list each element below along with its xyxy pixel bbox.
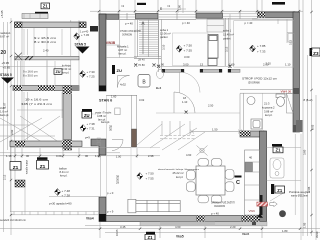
svg-text:Z1: Z1 — [40, 164, 46, 170]
svg-text:=2: =2 — [121, 4, 125, 8]
dining chairs — [187, 159, 235, 203]
wall bedroom1 west partition — [159, 19, 162, 72]
text dims under bed1 — [161, 62, 204, 66]
svg-text:3.13: 3.13 — [225, 46, 229, 52]
svg-text:2.40: 2.40 — [43, 49, 49, 53]
svg-text:Z1: Z1 — [148, 235, 154, 240]
svg-text:+ 7.38: + 7.38 — [87, 122, 96, 126]
marker X ticks y66 — [157, 65, 232, 68]
text +7.38 hall — [87, 122, 96, 131]
svg-text:30: 30 — [109, 128, 112, 132]
window top wall gap 2 — [158, 15, 196, 20]
svg-text:3.13: 3.13 — [289, 39, 293, 45]
svg-text:16.05: 16.05 — [115, 229, 119, 236]
wire island edge — [130, 148, 132, 200]
svg-text:+ 7.55: + 7.55 — [146, 177, 155, 181]
svg-text:40: 40 — [249, 156, 253, 160]
svg-text:+ 7.38: + 7.38 — [62, 194, 71, 198]
svg-text:p = 40: p = 40 — [245, 21, 253, 25]
text stair spec lower — [21, 98, 53, 107]
text stair spec upper — [34, 36, 57, 44]
svg-text:p + 0: p + 0 — [107, 191, 114, 195]
niche box left of west wall — [90, 26, 98, 32]
wire bedroom1 inner outline — [173, 33, 209, 66]
text stair spec mid — [23, 70, 38, 78]
svg-text:OPRANI I PUŠ ZAŠTITI: OPRANI I PUŠ ZAŠTITI — [211, 202, 235, 205]
svg-text:29: 29 — [116, 181, 119, 185]
wall balcony band y141 — [10, 141, 82, 147]
text zid left — [0, 106, 9, 117]
svg-text:8 x 30.0 cm: 8 x 30.0 cm — [34, 40, 57, 44]
wall bathroom south band — [240, 131, 264, 137]
svg-text:soba 1: soba 1 — [160, 28, 169, 32]
svg-text:3.92: 3.92 — [10, 129, 14, 135]
wall bedroom divider x226 — [226, 18, 229, 66]
svg-text:OGRADOM: OGRADOM — [214, 205, 225, 208]
svg-text:1.00: 1.00 — [116, 155, 122, 159]
text dim bottom row — [120, 225, 288, 233]
wire dimension lines left margin — [4, 18, 12, 235]
svg-text:VW4 30: VW4 30 — [281, 90, 292, 94]
svg-text:Vko4: Vko4 — [86, 217, 94, 221]
svg-text:3.60: 3.60 — [303, 149, 307, 155]
marker level kitchen — [80, 71, 86, 78]
svg-text:ZU: ZU — [84, 113, 90, 118]
switch boxes hall — [97, 138, 101, 146]
svg-text:3.00: 3.00 — [184, 55, 190, 59]
svg-text:8 x 30.0 cm: 8 x 30.0 cm — [23, 74, 38, 78]
furniture bed bedroom1 — [208, 35, 218, 66]
svg-text:Z3: Z3 — [313, 51, 319, 56]
text mihaela — [117, 45, 129, 56]
wall top main segment 3 — [196, 13, 223, 18]
wall terrace band y86 — [13, 86, 79, 91]
svg-text:p + 40: p + 40 — [211, 212, 219, 216]
svg-text:20: 20 — [1, 50, 7, 56]
text stair dims — [138, 57, 145, 67]
svg-text:1.95: 1.95 — [303, 222, 307, 228]
dining table — [196, 166, 225, 195]
marker level bedroom2 — [250, 45, 256, 52]
wire dimension chain y156 — [0, 148, 160, 158]
marker level living room — [137, 173, 143, 180]
terrace wc right — [270, 158, 284, 178]
marker triangle bottom right — [257, 214, 264, 218]
svg-text:2.98: 2.98 — [148, 154, 154, 158]
svg-text:visina ograde: visina ograde — [25, 160, 28, 175]
wire dimension line y131 with ticks — [190, 130, 242, 134]
svg-text:OGRADOM: OGRADOM — [122, 34, 132, 37]
wall lower terrace band — [140, 222, 267, 226]
wall L-corner at balcony door — [91, 139, 106, 155]
wire stair treads middle flight — [18, 61, 56, 85]
window tick gap2 — [176, 13, 178, 20]
svg-text:ker.pl.: ker.pl. — [176, 175, 183, 179]
svg-text:1.80: 1.80 — [282, 229, 288, 233]
text otvor u pod — [120, 30, 141, 37]
marker level balcony — [55, 189, 61, 196]
wire roof diagonals center — [137, 121, 205, 150]
text door dims — [182, 96, 188, 104]
wall bottom main — [106, 216, 260, 222]
wall west interior x99 — [99, 14, 106, 91]
sofa — [128, 199, 180, 213]
text balkon — [59, 167, 69, 178]
text vrata note — [95, 111, 112, 122]
svg-text:345 (7 x 29.3 cm: 345 (7 x 29.3 cm — [21, 102, 53, 106]
wall terrace band y57 — [15, 53, 80, 61]
wall hall partition x132 brown hatch — [132, 95, 137, 147]
svg-text:+ 7.30: + 7.30 — [87, 70, 96, 74]
marker STAN5 flag triangle — [76, 47, 90, 54]
svg-text:4.60: 4.60 — [175, 225, 181, 229]
svg-text:2.20: 2.20 — [230, 225, 236, 229]
furniture planter terrace top — [22, 13, 48, 19]
svg-text:ker.pl.: ker.pl. — [265, 113, 273, 117]
wall bedrooms south jambs — [162, 69, 231, 73]
wall top main segment 1 — [99, 14, 119, 20]
svg-text:15.40 m²: 15.40 m² — [223, 33, 234, 37]
marker level stairs top — [74, 33, 80, 40]
wall bathroom north lines — [240, 90, 293, 94]
wall east living x260 — [260, 131, 267, 222]
text kuhinja — [62, 64, 71, 75]
wire hall line y113 — [156, 112, 240, 114]
svg-text:STAN 6: STAN 6 — [99, 99, 112, 103]
svg-text:+ 7.50: + 7.50 — [146, 172, 155, 176]
svg-text:2.12: 2.12 — [3, 174, 7, 180]
svg-text:soba 1: soba 1 — [223, 29, 232, 33]
marker black bar top right — [272, 2, 285, 5]
text kupaona — [262, 102, 275, 118]
svg-text:parket: parket — [160, 35, 168, 39]
marker C dining — [235, 176, 242, 187]
svg-text:ZU: ZU — [55, 70, 60, 74]
svg-text:kuhinja: kuhinja — [62, 64, 71, 68]
svg-text:12.06 m²: 12.06 m² — [160, 32, 171, 36]
svg-text:IZVORNIK: IZVORNIK — [248, 82, 260, 85]
svg-text:3.20: 3.20 — [266, 62, 272, 66]
text levels balcony — [62, 189, 71, 198]
marker black bar top center — [137, 3, 146, 5]
svg-text:Mihaela 1: Mihaela 1 — [117, 45, 129, 49]
svg-text:šam.pl.: šam.pl. — [0, 113, 9, 117]
svg-text:+ 7.25: + 7.25 — [87, 75, 96, 79]
marker level hall lower — [80, 125, 86, 132]
svg-text:samo Ø315mm: samo Ø315mm — [291, 196, 308, 198]
svg-text:Z1: Z1 — [276, 148, 282, 153]
svg-text:3.00: 3.00 — [56, 154, 62, 158]
boiler box B — [138, 75, 150, 88]
svg-text:lam.pl.: lam.pl. — [119, 52, 127, 56]
svg-text:+ 7.45: + 7.45 — [81, 33, 90, 37]
furniture closet bedroom1 — [207, 19, 224, 32]
wall mihaela room lines — [106, 20, 137, 58]
marker red hatch drain — [257, 202, 277, 207]
svg-text:3.10: 3.10 — [162, 44, 166, 50]
svg-text:4.60: 4.60 — [186, 153, 192, 157]
wire stair treads upper flight — [0, 20, 79, 88]
svg-text:1.10: 1.10 — [285, 62, 291, 66]
svg-text:70 80: 70 80 — [138, 63, 145, 67]
svg-text:4.87 m²: 4.87 m² — [118, 48, 127, 52]
wire balcony railing posts — [14, 212, 94, 215]
window tick gap1 — [126, 13, 128, 20]
window top wall gap 3 — [223, 14, 258, 19]
svg-text:25.22 m²: 25.22 m² — [173, 171, 184, 175]
marker big triangle left edge — [1, 78, 14, 84]
svg-text:8 (8+2): 8 (8+2) — [304, 98, 313, 102]
wall hall top y95 — [106, 94, 137, 96]
svg-text:STAN 5: STAN 5 — [0, 73, 12, 77]
svg-text:3.02: 3.02 — [139, 98, 145, 102]
label box ZU kitchen — [54, 69, 62, 75]
svg-text:ZU: ZU — [117, 68, 122, 73]
svg-text:1.00: 1.00 — [229, 62, 235, 66]
svg-text:kupaona 2: kupaona 2 — [262, 106, 275, 110]
text ponikva — [289, 192, 311, 198]
svg-text:19 x 16.6 cm: 19 x 16.6 cm — [25, 98, 49, 102]
svg-text:1.80: 1.80 — [178, 4, 182, 10]
svg-text:+5.95: +5.95 — [0, 10, 4, 18]
text soba1 label — [160, 28, 171, 39]
svg-text:28 40: 28 40 — [138, 57, 145, 61]
text oprani note — [211, 202, 235, 209]
kitchen counter — [245, 150, 260, 215]
wall vertical parapet x63 — [63, 86, 72, 150]
text levels bedroom1 — [184, 44, 193, 53]
bathroom vanity — [251, 119, 262, 129]
marker level bedroom1 — [176, 45, 182, 52]
stairs main interior flight — [139, 21, 158, 55]
wire bedroom inner face line — [106, 19, 293, 21]
svg-text:p + 9: p + 9 — [107, 210, 114, 214]
label box ZU west — [82, 109, 92, 118]
kitchen washer — [245, 163, 253, 172]
wall bedrooms south y70 — [162, 69, 240, 72]
door arc balcony — [112, 140, 123, 151]
svg-text:B+6: B+6 — [156, 86, 162, 90]
svg-text:13: 13 — [200, 62, 204, 66]
text nadstres — [0, 31, 11, 39]
svg-text:18: 18 — [183, 96, 186, 100]
svg-text:C: C — [236, 180, 240, 186]
svg-text:1.07: 1.07 — [3, 102, 7, 108]
door arc hall-stairs — [118, 76, 130, 88]
wire stair zone lower flight — [17, 92, 63, 140]
label box Z1 bottom-center — [145, 232, 155, 240]
wire dimension lines right margin — [303, 0, 316, 240]
wire balcony outline — [10, 147, 99, 215]
svg-text:Vko5: Vko5 — [176, 235, 184, 239]
text +7.30 kitchen — [87, 70, 96, 79]
svg-text:3.00: 3.00 — [183, 62, 189, 66]
svg-text:balkon: balkon — [59, 167, 67, 171]
text 2830 stack — [109, 125, 112, 132]
wire dimension lines bottom margin — [0, 222, 320, 238]
door arc hall-living — [174, 92, 195, 113]
marker X tick door — [185, 111, 188, 114]
svg-text:nadstreš: nadstreš — [0, 31, 11, 35]
marker drain circle terrace — [279, 210, 286, 217]
wall top main segment 2 — [136, 14, 159, 20]
text strop i pod — [242, 78, 277, 85]
text dim chain y156 — [6, 154, 154, 158]
hall wc small — [115, 108, 120, 115]
svg-text:2.85: 2.85 — [307, 186, 311, 192]
label box ZU hall — [112, 65, 122, 74]
svg-text:+ 7.33: + 7.33 — [257, 50, 266, 54]
wall southwest corner — [99, 197, 106, 222]
svg-text:1.18: 1.18 — [6, 154, 12, 158]
svg-text:90: 90 — [161, 62, 165, 66]
svg-text:30: 30 — [26, 154, 30, 158]
svg-text:4.88 m²: 4.88 m² — [97, 114, 106, 118]
svg-text:3.30 m²: 3.30 m² — [62, 67, 71, 71]
bathroom shower — [287, 94, 294, 114]
wire balcony top extend — [99, 147, 131, 149]
wire bedroom2 inner outline — [234, 21, 294, 67]
svg-text:8.67 m²: 8.67 m² — [0, 35, 9, 39]
text right margin rotated dims — [303, 124, 315, 228]
text dims under bed2 — [229, 62, 291, 66]
svg-text:sendvič zid 10x10 cm: sendvič zid 10x10 cm — [0, 219, 26, 222]
svg-text:parket: parket — [223, 37, 231, 41]
text left margin rotated dims — [3, 102, 14, 180]
svg-text:+ 7.55: + 7.55 — [184, 49, 193, 53]
wall balcony end block x15 y180 — [15, 180, 25, 187]
svg-text:1.10: 1.10 — [182, 100, 188, 104]
marker checker block bottom right — [241, 218, 260, 224]
wall east exterior x293 — [293, 12, 300, 132]
svg-text:3.45: 3.45 — [120, 225, 126, 229]
svg-text:+5.95: +5.95 — [2, 61, 10, 65]
svg-text:1.50: 1.50 — [212, 128, 218, 132]
svg-text:p = 40: p = 40 — [182, 21, 190, 25]
svg-text:+5.85: +5.85 — [3, 66, 11, 70]
wire roof X-brace lower-left — [0, 116, 60, 143]
svg-text:lam.pl.: lam.pl. — [98, 118, 106, 122]
bathroom wc — [276, 94, 285, 106]
label box Z1 bottom-right — [271, 184, 285, 194]
svg-text:39/19: 39/19 — [315, 231, 319, 238]
text dnevni — [158, 168, 200, 179]
label box Z1 top-left — [41, 3, 50, 9]
svg-text:+ 7.85: + 7.85 — [257, 44, 266, 48]
svg-text:p=9: p=9 — [85, 136, 90, 140]
text levels bedroom2 — [257, 44, 266, 54]
svg-text:+ 7.31: + 7.31 — [87, 127, 96, 131]
svg-text:Z1: Z1 — [277, 188, 283, 193]
text soba2 label — [223, 29, 234, 41]
label box Z1 balcony-mid — [37, 157, 49, 170]
furniture corner bedroom2 — [252, 19, 295, 43]
wire bedroom1 dim line y66 — [158, 14, 230, 68]
label box Z3 right edge — [310, 48, 320, 56]
window tick gap3 — [239, 12, 241, 20]
label box Z1 balcony-left — [10, 162, 21, 171]
text small stack westwall — [116, 175, 119, 185]
wall east end block — [296, 120, 303, 132]
svg-text:Z1: Z1 — [13, 165, 19, 171]
svg-text:ker.pl.: ker.pl. — [62, 71, 69, 75]
wall top main segment 4 — [258, 12, 300, 18]
wire terrace right lines — [267, 134, 302, 240]
svg-text:30: 30 — [85, 154, 89, 158]
door arc bedroom1 — [180, 72, 201, 93]
wire parapet verticals left — [15, 28, 22, 142]
svg-text:2.50: 2.50 — [208, 104, 214, 108]
window top wall gap 1 — [119, 15, 136, 20]
wire west window lines — [100, 155, 102, 197]
svg-text:+ 7.50: + 7.50 — [184, 44, 193, 48]
svg-text:STAN 5: STAN 5 — [75, 43, 87, 47]
wall top-left parapet band — [15, 22, 87, 28]
svg-text:p = 40: p = 40 — [125, 22, 133, 26]
wire zu leader — [92, 113, 99, 115]
wire living room inner outline — [107, 94, 263, 216]
svg-text:Z1: Z1 — [43, 4, 49, 9]
text levels living room — [146, 172, 155, 181]
svg-text:VW9: VW9 — [249, 209, 256, 213]
svg-text:STROP I POD 12x12 cm: STROP I POD 12x12 cm — [242, 78, 277, 81]
svg-text:21:3: 21:3 — [264, 102, 270, 106]
door oval bedroom1 entry — [156, 70, 164, 91]
svg-text:p+30 ograda h=90: p+30 ograda h=90 — [49, 202, 72, 206]
label box Z1 terrace-right — [272, 144, 283, 153]
bathroom bidet — [247, 97, 255, 105]
svg-text:ker.pl.: ker.pl. — [60, 174, 68, 178]
svg-text:1.60: 1.60 — [111, 95, 117, 99]
svg-text:4x32: 4x32 — [120, 83, 126, 87]
svg-text:VW3B: VW3B — [106, 41, 116, 45]
lamp symbol living — [197, 146, 208, 156]
svg-text:+ 7.48: + 7.48 — [62, 189, 71, 193]
wall bathroom west lines — [240, 94, 244, 132]
svg-text:Vko5: Vko5 — [242, 232, 250, 236]
wire dimension lines top margin — [90, 0, 303, 14]
svg-text:=2: =2 — [167, 4, 171, 8]
